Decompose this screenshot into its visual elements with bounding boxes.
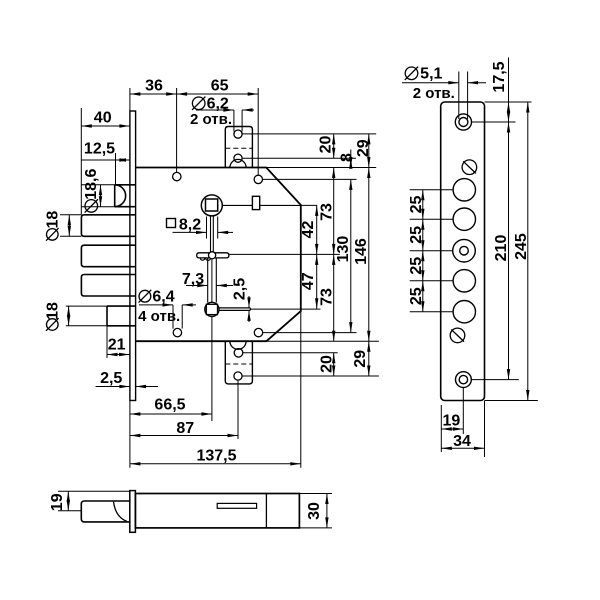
lock body outline xyxy=(136,168,301,342)
dia6.4 leader arrows xyxy=(139,304,173,306)
dim 87 xyxy=(130,435,238,437)
dim 65 xyxy=(177,93,259,95)
dim 17.5 xyxy=(508,58,510,103)
svg-text:20: 20 xyxy=(319,355,336,373)
ext faceplate left down xyxy=(129,401,131,468)
keyhole circle xyxy=(205,302,219,316)
dia6.2 hole tangent ext lines xyxy=(233,110,235,132)
screw top with slot xyxy=(462,160,477,175)
bottom view faceplate bar xyxy=(130,491,136,533)
svg-text:2,5: 2,5 xyxy=(232,278,249,300)
dia6.4 tangent ext lines xyxy=(172,305,174,329)
latch ext lines xyxy=(81,184,114,186)
svg-text:8,2: 8,2 xyxy=(179,217,201,234)
svg-text:137,5: 137,5 xyxy=(196,448,236,465)
ext bottom screw center right xyxy=(472,379,519,381)
lever bar from keyhole xyxy=(219,307,250,309)
svg-text:29: 29 xyxy=(355,139,372,157)
25 chain ext lines xyxy=(410,189,453,191)
ext bottom bracket hole1 line xyxy=(243,352,338,354)
screw hole bottom dia5.1 xyxy=(456,372,472,388)
svg-text:66,5: 66,5 xyxy=(154,397,185,414)
deadbolt 3 xyxy=(81,275,135,297)
big hole 2 xyxy=(453,208,475,230)
key profile scallops xyxy=(200,258,210,261)
top mounting bracket xyxy=(225,127,252,168)
centerline from key to right xyxy=(229,253,301,255)
svg-text:8: 8 xyxy=(338,153,355,162)
dim 34 right view xyxy=(484,401,486,458)
dim 36 xyxy=(130,93,177,95)
faceplate edge main view xyxy=(130,111,136,401)
dia5.1 tangent ext lines xyxy=(458,72,460,120)
svg-text:6,4: 6,4 xyxy=(152,288,174,305)
svg-text:73: 73 xyxy=(319,288,336,306)
ext bracket hole column down xyxy=(237,381,239,439)
key hole profile xyxy=(197,253,229,258)
top bracket dashed line xyxy=(225,147,252,149)
dim 210 xyxy=(508,122,510,380)
bottom view latch xyxy=(81,501,130,522)
dim 30 bottom view xyxy=(299,493,332,495)
label dia5.1 2 holes xyxy=(405,67,418,80)
dim 47 xyxy=(316,254,318,308)
latch bolt (D-shape) main view xyxy=(115,184,136,186)
dim 146 xyxy=(368,168,370,342)
svg-text:2 отв.: 2 отв. xyxy=(190,111,232,128)
dim 20 top bracket xyxy=(333,134,335,158)
spindle hole circle xyxy=(201,195,222,216)
ext bottom-right corner hole line xyxy=(263,332,357,334)
svg-text:47: 47 xyxy=(300,272,317,290)
aux bolt ext lines xyxy=(66,305,107,307)
bottom mounting bracket xyxy=(225,341,252,384)
dim 8.2 arrows xyxy=(173,231,207,233)
ext body top edge right xyxy=(266,167,376,169)
dia5.1 leader xyxy=(402,82,459,84)
dim 73 lower xyxy=(333,254,335,341)
dim 29 top xyxy=(368,134,370,168)
big hole 1 xyxy=(453,179,475,201)
dim 245 xyxy=(527,102,529,401)
screw bottom with slot xyxy=(450,328,465,343)
dim 12.5 xyxy=(115,153,117,185)
svg-text:5,1: 5,1 xyxy=(420,66,442,83)
svg-text:17,5: 17,5 xyxy=(491,61,508,92)
dim 2.5 faceplate thickness xyxy=(96,386,130,388)
dia6.2 leader and arrows xyxy=(196,109,234,111)
bottom view body xyxy=(135,494,299,528)
svg-text:21: 21 xyxy=(108,337,126,354)
ext line 36-65 boundary to top-left hole xyxy=(176,88,178,172)
dim 137.5 xyxy=(130,463,301,465)
spindle centerline to right xyxy=(222,204,300,206)
dim 8 xyxy=(350,150,352,159)
ext plate top right xyxy=(485,101,532,103)
dim 73 upper xyxy=(333,168,335,255)
dim dia18.6 latch xyxy=(100,185,102,207)
deadbolt 1 xyxy=(81,215,135,237)
ext line 65 right to top-right hole xyxy=(257,88,259,175)
dim 42 xyxy=(316,205,318,254)
svg-text:18: 18 xyxy=(44,302,61,320)
dim 130 xyxy=(350,179,352,332)
svg-text:20: 20 xyxy=(318,136,335,154)
corner hole bottom-right dia6.4 xyxy=(254,328,262,336)
svg-text:19: 19 xyxy=(49,493,66,511)
svg-text:29: 29 xyxy=(352,350,369,368)
dim 20 bottom bracket xyxy=(333,353,335,376)
label square 8.2 xyxy=(167,219,176,228)
spindle square 8.2 xyxy=(206,199,218,211)
svg-text:19: 19 xyxy=(443,412,461,429)
ext body bottom edge right xyxy=(266,340,379,342)
ext bottom bracket hole2 line xyxy=(242,375,379,377)
key profile center bump xyxy=(209,252,216,259)
big hole 3 xyxy=(453,270,475,292)
svg-text:146: 146 xyxy=(353,238,370,265)
bottom view slot xyxy=(217,503,256,508)
top bracket hole upper dia6.2 xyxy=(234,130,242,138)
keyhole square inside xyxy=(206,304,217,314)
bottom bracket arc on body edge xyxy=(230,341,246,349)
center ring hole xyxy=(453,239,476,262)
bar centerline ext right xyxy=(250,308,320,310)
svg-text:25: 25 xyxy=(408,287,425,305)
ext line deadbolt face vertical xyxy=(80,108,82,215)
dim 19 right view xyxy=(440,405,442,452)
svg-text:36: 36 xyxy=(145,78,163,95)
bottom view latch bevel curve xyxy=(114,502,127,522)
svg-text:40: 40 xyxy=(94,110,112,127)
ext top bracket hole1 line xyxy=(242,133,376,135)
dim 40 xyxy=(81,125,130,127)
deadbolt ext lines for dia18 xyxy=(60,214,81,216)
key channel lower lines 7.3 xyxy=(207,258,209,302)
dim 29 bottom xyxy=(368,341,370,376)
svg-text:34: 34 xyxy=(453,433,471,450)
ext body right corner down xyxy=(300,311,302,468)
bottom bracket hole lower xyxy=(234,372,242,380)
svg-text:18: 18 xyxy=(44,211,61,229)
dim dia18 deadbolts xyxy=(68,215,70,237)
dim dia18 aux bolt xyxy=(68,306,70,326)
dim 19 bottom view xyxy=(58,490,130,492)
key channel centerline xyxy=(211,260,213,303)
corner hole bottom-left dia6.4 xyxy=(173,328,181,336)
bottom bracket hole upper xyxy=(234,349,243,358)
corner hole top-left dia6.4 xyxy=(173,172,181,180)
dim 21 xyxy=(107,354,130,356)
ext top screw center right xyxy=(472,121,516,123)
deadbolt 2 xyxy=(81,245,135,267)
svg-text:210: 210 xyxy=(493,235,510,262)
corner hole top-right dia6.4 xyxy=(254,175,262,183)
label dia6.2 2 holes xyxy=(192,97,205,110)
big hole 4 xyxy=(453,301,475,323)
top bracket arc on body edge xyxy=(230,159,246,167)
svg-text:18,6: 18,6 xyxy=(83,169,100,200)
svg-text:25: 25 xyxy=(408,196,425,214)
ext line faceplate top up xyxy=(129,88,131,111)
label dia6.4 4 holes xyxy=(139,290,151,302)
key channel upper lines xyxy=(210,216,212,253)
svg-text:25: 25 xyxy=(408,226,425,244)
svg-text:42: 42 xyxy=(300,221,317,239)
dim 2.5 bar arrows xyxy=(248,296,250,308)
dim 25 chain xyxy=(422,190,424,219)
svg-text:2 отв.: 2 отв. xyxy=(413,85,455,102)
svg-text:245: 245 xyxy=(513,233,530,260)
auxiliary bolt bottom xyxy=(107,305,136,307)
svg-text:87: 87 xyxy=(176,420,194,437)
top bracket hole lower dia6.2 xyxy=(234,154,242,162)
dim 66.5 xyxy=(130,413,212,415)
ext lines spindle square sides xyxy=(206,217,208,239)
ext top bracket hole2 line xyxy=(242,157,356,159)
svg-text:25: 25 xyxy=(408,257,425,275)
ext plate bottom right xyxy=(485,400,538,402)
svg-text:65: 65 xyxy=(211,78,229,95)
bottom bracket dashed line xyxy=(225,363,252,365)
bottom view inner line xyxy=(265,494,267,528)
svg-text:4 отв.: 4 отв. xyxy=(138,308,180,325)
centerline down from keyhole xyxy=(211,317,213,422)
svg-text:30: 30 xyxy=(306,502,323,520)
svg-text:2,5: 2,5 xyxy=(100,370,122,387)
ext top-right corner hole line xyxy=(263,178,357,180)
svg-text:130: 130 xyxy=(335,236,352,263)
small rectangle part right of spindle xyxy=(252,196,259,209)
screw hole top dia5.1 xyxy=(455,114,471,130)
svg-text:12,5: 12,5 xyxy=(84,141,115,158)
dim 7.3 arrows xyxy=(186,285,208,287)
faceplate front view plate xyxy=(441,102,485,401)
svg-text:73: 73 xyxy=(319,203,336,221)
